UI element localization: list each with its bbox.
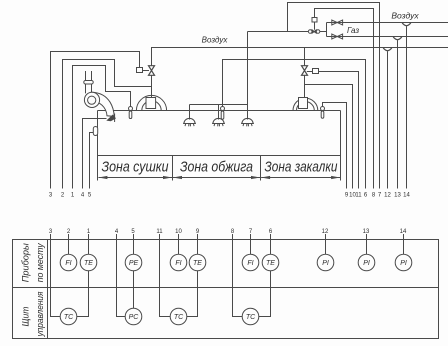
svg-text:TE: TE xyxy=(266,260,275,267)
svg-text:2: 2 xyxy=(67,229,71,235)
svg-text:Щит: Щит xyxy=(21,306,31,326)
svg-text:Газ: Газ xyxy=(347,26,359,35)
svg-text:12: 12 xyxy=(384,193,391,199)
svg-text:4: 4 xyxy=(115,229,119,235)
svg-text:FI: FI xyxy=(175,260,181,267)
svg-text:7: 7 xyxy=(249,229,253,235)
svg-text:по месту: по месту xyxy=(35,243,45,282)
svg-text:PI: PI xyxy=(363,260,370,267)
svg-text:управления: управления xyxy=(35,291,45,337)
svg-text:Воздух: Воздух xyxy=(391,11,419,21)
svg-text:12: 12 xyxy=(322,229,329,235)
svg-text:TC: TC xyxy=(246,314,256,321)
svg-text:PC: PC xyxy=(129,314,140,321)
svg-text:TC: TC xyxy=(64,314,74,321)
svg-text:13: 13 xyxy=(363,229,370,235)
svg-text:PI: PI xyxy=(322,260,329,267)
svg-text:Зона закалки: Зона закалки xyxy=(265,159,339,176)
svg-text:3: 3 xyxy=(49,193,53,199)
svg-text:TE: TE xyxy=(84,260,93,267)
svg-text:TE: TE xyxy=(193,260,202,267)
svg-text:Воздух: Воздух xyxy=(202,36,229,45)
svg-text:TC: TC xyxy=(174,314,184,321)
svg-text:11: 11 xyxy=(156,229,163,235)
svg-text:11: 11 xyxy=(355,193,362,199)
svg-text:1: 1 xyxy=(87,229,91,235)
svg-text:5: 5 xyxy=(88,193,92,199)
svg-text:1: 1 xyxy=(71,193,75,199)
svg-text:2: 2 xyxy=(61,193,65,199)
svg-text:14: 14 xyxy=(400,229,407,235)
svg-text:8: 8 xyxy=(372,193,376,199)
svg-text:5: 5 xyxy=(131,229,135,235)
svg-text:10: 10 xyxy=(175,229,182,235)
svg-text:PI: PI xyxy=(400,260,407,267)
svg-text:9: 9 xyxy=(196,229,200,235)
svg-text:6: 6 xyxy=(364,193,368,199)
svg-text:7: 7 xyxy=(378,193,382,199)
svg-text:Зона обжига: Зона обжига xyxy=(180,159,253,176)
svg-text:8: 8 xyxy=(231,229,235,235)
svg-text:FI: FI xyxy=(247,260,253,267)
svg-text:Зона сушки: Зона сушки xyxy=(102,159,170,176)
svg-text:6: 6 xyxy=(269,229,273,235)
svg-text:PE: PE xyxy=(129,260,139,267)
svg-text:4: 4 xyxy=(81,193,85,199)
svg-text:13: 13 xyxy=(394,193,401,199)
svg-text:FI: FI xyxy=(65,260,71,267)
svg-text:Приборы: Приборы xyxy=(21,243,31,282)
svg-text:14: 14 xyxy=(403,193,410,199)
svg-text:3: 3 xyxy=(49,229,53,235)
